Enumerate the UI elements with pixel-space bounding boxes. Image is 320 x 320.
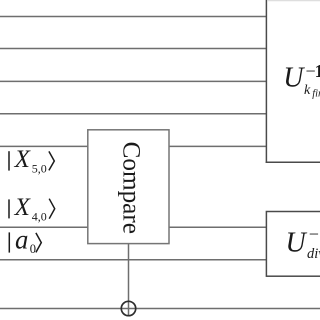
svg-text:−1: −1 — [309, 224, 320, 244]
wire target (bottom, full width) — [0, 308, 320, 310]
svg-text:X: X — [14, 146, 32, 173]
ket |a0> — [9, 224, 41, 256]
svg-text:div: div — [307, 246, 320, 262]
wire q1 (top) — [0, 15, 266, 17]
svg-text:0: 0 — [30, 242, 36, 256]
CNOT target on bottom wire — [121, 301, 135, 315]
wire q3 — [0, 80, 266, 82]
svg-text:k: k — [304, 83, 311, 98]
wire q4 — [0, 113, 266, 115]
svg-text:−1: −1 — [306, 61, 320, 81]
svg-text:Compare: Compare — [118, 142, 145, 234]
Compare box — [88, 130, 169, 244]
box U_div (bottom right) — [266, 212, 320, 277]
ket |X4,0> — [9, 194, 55, 223]
wire X4,0 right segment — [169, 226, 266, 228]
svg-text:U: U — [283, 63, 305, 94]
svg-text:a: a — [15, 224, 28, 254]
wire a0 — [0, 259, 266, 261]
svg-text:4,0: 4,0 — [32, 209, 47, 223]
wire X4,0 left segment — [0, 226, 88, 228]
wire q2 — [0, 48, 266, 50]
ket |X5,0> — [9, 146, 54, 175]
control line from Compare box to CNOT target — [128, 244, 130, 316]
svg-text:5,0: 5,0 — [32, 161, 47, 175]
box U_kfirst (top right) — [266, 0, 320, 162]
wire X5,0 left segment — [0, 145, 88, 147]
wire X5,0 right segment — [169, 145, 266, 147]
label U^-1_k_fir — [283, 61, 320, 99]
svg-text:X: X — [14, 194, 32, 221]
svg-text:fir: fir — [312, 89, 320, 100]
svg-text:U: U — [286, 228, 308, 259]
label U^-1_div — [286, 224, 320, 262]
